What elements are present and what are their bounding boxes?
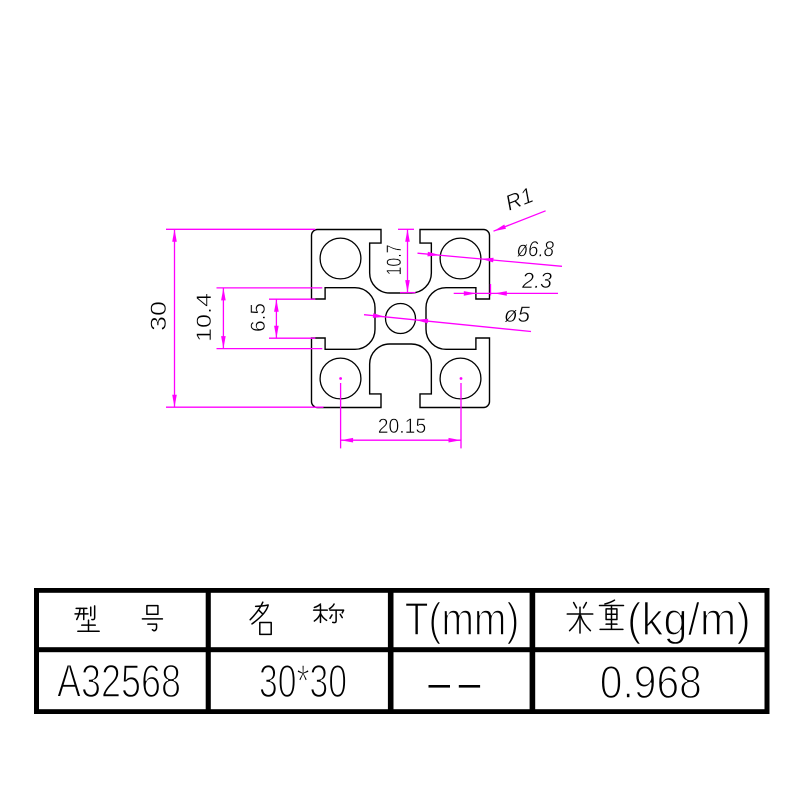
svg-text:10.4: 10.4 [192,293,216,342]
svg-text:A32568: A32568 [57,655,181,707]
svg-text:0.968: 0.968 [600,656,702,708]
svg-text:30*30: 30*30 [259,655,347,707]
svg-text:ø6.8: ø6.8 [517,237,555,262]
svg-text:ø5: ø5 [504,302,531,327]
svg-text:(kg/m): (kg/m) [627,593,751,645]
svg-text:2.3: 2.3 [521,268,553,293]
svg-text:10.7: 10.7 [382,245,406,276]
svg-text:20.15: 20.15 [378,414,427,438]
svg-text:6.5: 6.5 [246,303,270,332]
svg-text:T(mm): T(mm) [405,593,520,645]
svg-text:30: 30 [146,301,171,331]
